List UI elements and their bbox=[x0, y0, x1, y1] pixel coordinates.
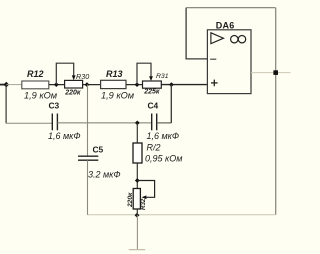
svg-text:1,6 мкФ: 1,6 мкФ bbox=[48, 131, 81, 141]
wire R12 to R30 bbox=[49, 84, 65, 86]
svg-text:0,95 кОм: 0,95 кОм bbox=[145, 154, 182, 164]
node R12/R30 junction bbox=[54, 82, 59, 87]
node R32-bottom junction bbox=[135, 213, 140, 218]
resistor R12 bbox=[22, 69, 58, 101]
feedback wire (inverting input to top) bbox=[186, 8, 276, 60]
capacitor C5 bbox=[78, 145, 121, 180]
node M (C3/C4/R2) junction bbox=[135, 120, 140, 125]
bottom feedback rail bbox=[88, 214, 276, 216]
wire R31 to op-amp + input bbox=[161, 84, 207, 86]
svg-text:R31: R31 bbox=[156, 73, 169, 80]
left vertical wire (input to C3) bbox=[5, 85, 7, 124]
svg-text:1,9 кОм: 1,9 кОм bbox=[101, 91, 135, 101]
output vertical wire bbox=[275, 8, 277, 215]
node R/2-R32 junction bbox=[135, 178, 140, 183]
svg-text:R/2: R/2 bbox=[147, 143, 161, 153]
resistor R13 bbox=[101, 69, 135, 101]
node R13/R31 junction bbox=[135, 82, 140, 87]
potentiometer R32 bbox=[127, 181, 155, 211]
svg-text:1,6 мкФ: 1,6 мкФ bbox=[147, 131, 180, 141]
node B (R31/C4/opamp) junction bbox=[169, 82, 174, 87]
node IN junction bbox=[3, 82, 9, 88]
wire R13 to R31 bbox=[126, 84, 143, 86]
svg-text:R30: R30 bbox=[76, 72, 89, 81]
wire R32 bottom to ground bbox=[136, 209, 138, 250]
wire left rail to C3 bbox=[6, 122, 52, 124]
node A (R30/R13/C5) junction bbox=[85, 82, 90, 87]
capacitor C4 bbox=[147, 101, 180, 142]
svg-text:R13: R13 bbox=[106, 69, 123, 79]
resistor R/2 bbox=[133, 143, 182, 164]
svg-text:220к: 220к bbox=[64, 90, 81, 97]
wire R/2 to R32 bbox=[136, 163, 138, 188]
svg-text:220к: 220к bbox=[127, 192, 134, 208]
wire C4 up to node B bbox=[157, 85, 172, 123]
svg-text:R12: R12 bbox=[27, 69, 44, 79]
svg-text:R32: R32 bbox=[140, 198, 147, 210]
wire IN to R12 bbox=[6, 84, 22, 86]
svg-text:C3: C3 bbox=[49, 101, 60, 111]
wire node A down to C5 bbox=[87, 85, 89, 157]
wire C3 to C4 bbox=[57, 122, 151, 124]
svg-text:1,9 кОм: 1,9 кОм bbox=[24, 91, 58, 101]
wire R30 to R13 bbox=[83, 84, 101, 86]
svg-text:C5: C5 bbox=[93, 145, 104, 155]
input wire bbox=[0, 84, 6, 86]
ground bar bbox=[129, 249, 145, 251]
potentiometer R30 bbox=[56, 63, 89, 96]
op-amp output line bbox=[251, 72, 291, 74]
wire node M down to R/2 bbox=[136, 123, 138, 143]
capacitor C3 bbox=[48, 101, 81, 142]
potentiometer R31 bbox=[137, 63, 169, 95]
wire C5 to bottom rail bbox=[87, 160, 89, 215]
svg-text:225к: 225к bbox=[143, 89, 160, 96]
op-amp DA6 bbox=[207, 21, 251, 94]
svg-text:3.2 мкФ: 3.2 мкФ bbox=[88, 170, 121, 180]
svg-text:DA6: DA6 bbox=[216, 21, 235, 31]
output node junction bbox=[273, 70, 278, 75]
svg-text:C4: C4 bbox=[148, 101, 159, 111]
